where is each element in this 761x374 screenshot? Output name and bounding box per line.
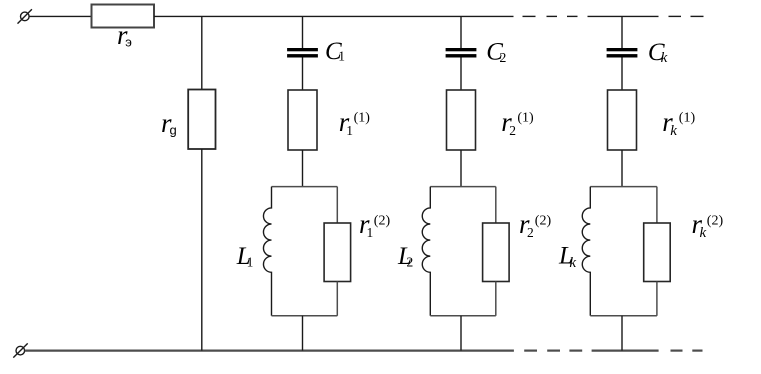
svg-text:э: э (125, 35, 132, 50)
node: tank k top rail (590, 186, 657, 188)
wire r_g branch bottom (201, 149, 203, 351)
svg-text:g: g (170, 123, 177, 138)
wire tank2 to bottom bus (460, 316, 462, 351)
resistor rk(2) (644, 187, 724, 316)
wire r1(1) to tank 1 (302, 150, 304, 187)
node: tank2 top rail (430, 186, 496, 188)
inductor L2 (397, 187, 430, 316)
wire rk(1) to tank k (621, 150, 623, 187)
node: tank2 bottom rail (430, 315, 496, 317)
svg-text:1: 1 (338, 49, 345, 64)
inductor L1 (236, 187, 272, 316)
svg-text:(1): (1) (517, 111, 534, 126)
node: tank k bottom rail (590, 315, 657, 317)
wire top bus dashed segment 1 (523, 15, 578, 17)
wire tank k to bottom bus (621, 316, 623, 351)
svg-text:2: 2 (509, 123, 516, 138)
resistor r2(2) (483, 187, 552, 316)
svg-text:1: 1 (367, 225, 374, 240)
svg-text:(1): (1) (679, 111, 696, 126)
node: tank1 top rail (272, 186, 338, 188)
wire branch k top (621, 16, 623, 48)
capacitor C2 (446, 39, 507, 67)
resistor r1(1) (288, 90, 370, 150)
wire top bus: terminal to r_э (29, 15, 91, 17)
svg-text:1: 1 (346, 123, 353, 138)
wire top bus: solid around branch k junction (588, 15, 659, 17)
wire branch1 top (302, 16, 304, 48)
svg-text:k: k (670, 123, 677, 139)
svg-text:k: k (661, 50, 668, 66)
wire bottom bus dashed segment 2 (671, 350, 703, 352)
node: tank1 bottom rail (272, 315, 338, 317)
svg-text:(2): (2) (535, 213, 552, 228)
wire top bus dashed segment 2 (669, 15, 704, 17)
wire r_g branch top (201, 16, 203, 89)
svg-text:2: 2 (407, 255, 414, 270)
resistor rk(1) (608, 90, 696, 150)
wire tank1 to bottom bus (302, 316, 304, 351)
svg-text:(2): (2) (374, 213, 391, 228)
inductor Lk (558, 187, 590, 316)
capacitor C1 (287, 38, 345, 65)
svg-text:k: k (569, 255, 576, 271)
terminal (top-left input) (18, 9, 32, 23)
svg-text:1: 1 (247, 255, 254, 270)
wire bottom bus: terminal to dashed section (25, 350, 514, 352)
svg-text:k: k (700, 225, 707, 241)
wire branch2 top (460, 16, 462, 48)
wire C2 to r2(1) (460, 58, 462, 91)
resistor r_э (92, 5, 155, 51)
wire top bus: r_э to dashed section (through junctions) (154, 15, 514, 17)
capacitor Ck (607, 39, 668, 66)
wire C1 to r1(1) (302, 58, 304, 91)
wire Ck to rk(1) (621, 58, 623, 91)
resistor r_g (161, 90, 216, 150)
terminal (bottom-left) (13, 343, 27, 357)
resistor r2(1) (447, 90, 535, 150)
svg-text:(2): (2) (707, 213, 724, 228)
resistor r1(2) (324, 187, 390, 316)
svg-text:2: 2 (527, 225, 534, 240)
wire bottom bus dashed segment 1 (524, 350, 582, 352)
wire bottom bus: solid around branch k junction (592, 350, 659, 352)
svg-text:2: 2 (499, 51, 506, 66)
wire r2(1) to tank 2 (460, 150, 462, 187)
svg-text:(1): (1) (354, 111, 371, 126)
